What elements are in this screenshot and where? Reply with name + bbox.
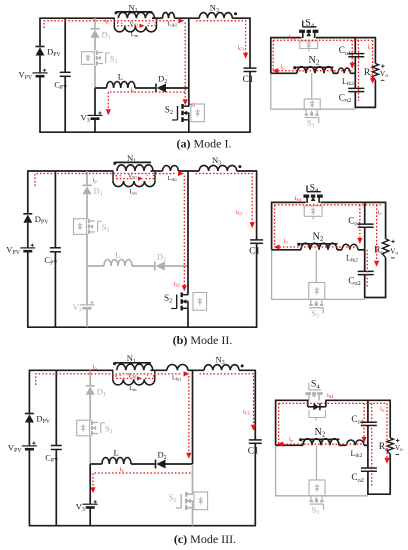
svg-text:(b) Mode II.: (b) Mode II.: [173, 333, 233, 347]
current arrow into C1 panel c: [251, 425, 256, 431]
current arrow at load panel b: [374, 261, 379, 267]
transformer N1 core bar panel a: [116, 11, 153, 13]
winding N3 dot panel b: [238, 165, 241, 168]
winding voltage label VN1 panel a: [120, 21, 150, 28]
current arrow at Co1 panel c: [362, 437, 367, 443]
transformer N1 dot panel c: [113, 362, 116, 365]
magnetizing inductance Lm winding panel c: [113, 370, 155, 392]
svg-text:C1: C1: [249, 247, 260, 257]
body diode box of S1 panel b: [74, 219, 87, 235]
wire: S2 branch panel a: [188, 18, 190, 132]
body diode box of S3 panel b: [309, 283, 325, 300]
current arrow into S2 panel a: [183, 99, 188, 105]
transformer N1 primary winding panel c: [117, 364, 153, 370]
wire: subcircuit bottom rail (inactive) panel a: [270, 108, 355, 110]
wire: subcircuit right edge panel c: [389, 400, 391, 494]
current arrow in Lm panel a: [140, 24, 145, 28]
diode D1 panel b: [83, 185, 103, 197]
current label iS2 panel a: [189, 101, 195, 108]
current label iS4 panel a: [289, 34, 296, 41]
wire: subcircuit top edge panel c: [275, 399, 391, 401]
current path into Co1 branch panel a: [351, 40, 353, 64]
wire: top rail panel c: [29, 369, 256, 371]
capacitor CPV panel a: [54, 72, 70, 91]
caption panel b: [173, 333, 233, 347]
wire: V3 branch panel c: [89, 464, 91, 526]
switch S4 (off) panel c: [305, 379, 323, 401]
wire: top rail panel a: [39, 17, 250, 19]
wire: subcircuit right edge panel a: [374, 38, 376, 108]
current arrow into Llk1 panel a: [178, 18, 184, 23]
capacitor Co1 panel c: [351, 415, 377, 426]
diode D1 panel c: [86, 386, 106, 398]
leakage inductance Llk2 panel a: [338, 68, 354, 87]
source V3 panel c: [76, 500, 98, 513]
diode D2 panel c: [156, 450, 167, 469]
current arrow io left panel c: [277, 442, 283, 447]
wire: subcircuit top edge panel b: [271, 201, 386, 203]
current label io load panel c: [380, 406, 385, 413]
wire: output middle branch panel a: [271, 72, 356, 74]
current arrow in Lm panel c: [137, 376, 142, 380]
output voltage labels panel c: [395, 439, 403, 455]
current arrow into Llk1 panel b: [178, 171, 184, 176]
current label io load panel b: [378, 209, 383, 216]
transformer N1 primary winding panel a: [118, 12, 154, 18]
body diode box of S4 panel a: [300, 41, 318, 52]
body diode box of S3 panel c: [309, 480, 325, 496]
body diode box of S3 panel a: [304, 99, 320, 109]
wire: CPV branch panel b: [54, 171, 56, 327]
wire: top rail panel b: [27, 170, 257, 172]
current arrow in Lm panel b: [138, 176, 143, 180]
diode D2 panel b: [155, 252, 166, 271]
wire: S3 stub panel c: [316, 445, 318, 480]
wire: S3 stub panel a: [311, 73, 313, 99]
caption panel a: [177, 137, 232, 151]
current arrow into C1 panel b: [250, 222, 255, 228]
capacitor Co1 panel b: [348, 217, 374, 228]
body diode box of S2 panel b: [193, 293, 207, 311]
wire: subcircuit bottom edge panel a: [355, 106, 377, 108]
winding voltage label VN1 panel b: [119, 174, 149, 181]
current path iC1 panel c: [200, 374, 254, 426]
current path subcircuit left panel b: [274, 205, 276, 247]
svg-text:VN1: VN1: [128, 174, 137, 180]
current path ip top loop panel b: [35, 174, 175, 187]
wire: subcircuit left edge lower (inactive) panel b: [271, 250, 273, 300]
current path through Co2 panel b: [366, 250, 368, 287]
current path down to D2 panel c: [188, 376, 190, 454]
wire: V3 branch panel a: [94, 88, 96, 132]
wire: bottom rail panel b: [27, 326, 257, 328]
current path subcircuit left panel c: [278, 403, 280, 444]
current arrow io left panel b: [274, 244, 280, 249]
body diode box of S2 panel a: [191, 104, 205, 122]
wire: subcircuit left edge panel b: [271, 202, 273, 249]
wire: output middle branch panel c: [276, 444, 369, 446]
current label io panel a: [281, 64, 286, 71]
current arrow into S2 panel b: [182, 285, 187, 291]
wire: bottom rail panel c: [29, 525, 256, 527]
wire: left rail panel a: [39, 18, 41, 132]
wire: Co1-Co2 column panel a: [354, 38, 356, 108]
wire: D1-S1 branch panel a: [94, 18, 96, 88]
capacitor Co2 panel c: [351, 468, 377, 484]
wire: subcircuit left edge panel c: [275, 400, 277, 445]
source V3 panel b: [73, 301, 95, 314]
wire: L-D2 branch panel b: [87, 265, 189, 267]
current arrow at load panel c: [384, 458, 389, 464]
leakage inductance Llk1 panel b: [163, 165, 179, 182]
winding N2 dot panel c: [299, 438, 302, 441]
wire: subcircuit bottom edge panel c: [367, 493, 391, 495]
diode DPV panel b: [23, 214, 49, 226]
wire: CPV branch panel a: [64, 18, 66, 132]
body diode box of S4 panel b: [304, 206, 322, 220]
transformer N1 dot panel b: [113, 162, 116, 165]
current arrow at Co1 panel b: [357, 238, 362, 244]
diode DPV panel c: [25, 414, 51, 426]
switch S3 (off) panel b: [309, 299, 323, 319]
winding N2 dot panel a: [293, 66, 296, 69]
winding N3 panel c: [204, 355, 239, 371]
svg-text:C1: C1: [243, 75, 254, 85]
wire: output middle branch panel b: [272, 249, 366, 251]
current label iL panel c: [120, 466, 125, 473]
transformer N1 label panel a: [128, 2, 137, 14]
current path ip top loop panel a: [44, 21, 176, 28]
wire: right rail with C1 panel b: [256, 171, 258, 327]
transformer N1 primary winding panel b: [117, 165, 153, 171]
current path iC1 panel b: [196, 174, 253, 224]
transformer N1 core bar panel c: [114, 362, 151, 364]
diode D1 panel a: [91, 29, 111, 41]
current label io panel b: [284, 238, 289, 245]
wire: left rail panel b: [27, 171, 29, 327]
wire: CPV branch panel c: [55, 370, 57, 525]
winding N3 panel a: [199, 2, 232, 18]
wire: D1-S1 branch panel b: [86, 171, 88, 266]
wire: subcircuit bottom edge panel b: [364, 297, 386, 299]
current arrow into V3 panel c: [90, 487, 95, 493]
current arrow at load panel a: [370, 78, 375, 84]
current path iS2 panel b: [183, 176, 185, 287]
current label iC1 panel c: [243, 409, 250, 416]
resistor R panel c: [379, 438, 394, 454]
transformer N1 core bar panel b: [115, 161, 152, 163]
svg-text:L: L: [118, 72, 123, 82]
diode DPV panel a: [36, 47, 62, 59]
resistor R panel a: [364, 64, 379, 81]
wire: V3 branch panel b: [86, 266, 88, 327]
winding N3 dot panel a: [234, 12, 237, 15]
current path through Lm panel b: [116, 175, 153, 179]
svg-text:L: L: [114, 448, 119, 458]
current path load branch panel b: [376, 205, 378, 262]
wire: subcircuit left edge panel a: [270, 38, 272, 74]
switch S1 panel b: [89, 219, 110, 234]
body diode box of S1 panel a: [82, 52, 95, 65]
wire: S2 branch panel b: [187, 171, 189, 327]
capacitor C1 panel b: [249, 240, 263, 257]
current path subcircuit top panel b: [275, 204, 382, 206]
switch S3 (off) panel c: [310, 496, 324, 516]
svg-text:(c) Mode III.: (c) Mode III.: [174, 532, 236, 546]
current arrow into D2 junction panel c: [186, 453, 191, 459]
current arrow into V3 panel a: [106, 109, 111, 115]
current path load branch panel c: [386, 403, 388, 458]
current path into Co1 branch panel c: [363, 403, 365, 438]
magnetizing inductance Lm winding panel b: [113, 171, 155, 196]
source V3 panel a: [81, 111, 103, 124]
leakage inductance Llk1 panel a: [163, 12, 178, 27]
winding N2 dot panel b: [297, 243, 300, 246]
svg-text:C1: C1: [248, 447, 259, 457]
current path through Lm panel c: [116, 375, 154, 378]
output voltage labels panel a: [380, 64, 388, 80]
current path iC1 panel a: [196, 21, 246, 54]
switch S4 panel a: [299, 18, 318, 39]
diode D2 panel a: [156, 74, 167, 93]
inductor L panel b: [104, 250, 132, 267]
wire: Co1-Co2 column panel c: [367, 400, 369, 494]
capacitor Co1 panel a: [339, 46, 365, 57]
output voltage labels panel b: [390, 240, 398, 258]
capacitor Co2 panel a: [339, 88, 365, 104]
magnetizing inductance Lm winding panel a: [114, 18, 156, 38]
transformer N1 label panel c: [127, 353, 136, 365]
winding N2 panel a: [297, 55, 334, 74]
remnant body box of S4 panel c: [309, 410, 325, 421]
current path subcircuit top panel a: [273, 39, 372, 41]
current path iL to V3 panel a: [108, 92, 185, 111]
wire: left rail panel c: [28, 370, 30, 525]
capacitor C1 panel a: [243, 68, 257, 85]
current arrow io left panel a: [272, 68, 278, 73]
winding N2 panel c: [303, 427, 340, 446]
body diode box of S2 panel c: [194, 492, 208, 510]
source VPV panel a: [19, 69, 48, 81]
current path through Lm panel a: [118, 22, 155, 26]
current path io to N2 panel a: [278, 70, 352, 72]
current path io to N2 panel b: [280, 246, 361, 248]
wire: subcircuit right edge panel b: [385, 202, 387, 297]
body diode box of S1 panel c: [77, 420, 90, 436]
wire: subcircuit top edge panel a: [270, 37, 376, 39]
wire: S3 stub panel b: [315, 250, 317, 283]
inductor L panel a: [107, 72, 135, 89]
transformer N1 label panel b: [127, 153, 136, 165]
wire: right rail with C1 panel a: [249, 18, 251, 132]
capacitor Co2 panel b: [348, 271, 374, 287]
current path subcircuit top panel c: [279, 402, 387, 404]
wire: L-D2 branch panel c: [90, 463, 193, 465]
current path io to N2 panel c: [283, 443, 364, 445]
resistor R panel b: [374, 239, 389, 258]
wire: D1-S1 branch panel c: [89, 370, 91, 464]
wire: L-D2 branch panel a: [95, 87, 190, 89]
current path ip top loop panel c: [36, 374, 181, 385]
winding N3 dot panel c: [241, 364, 244, 367]
switch S2 panel c: [169, 492, 194, 510]
winding voltage label VN1 panel c: [119, 373, 149, 380]
current path through capacitors panel a: [358, 40, 360, 101]
switch S1 panel c: [92, 421, 113, 436]
source VPV panel c: [8, 442, 37, 454]
body diode of S4 conducting panel c: [308, 400, 326, 411]
current arrow into C1 panel a: [243, 53, 248, 59]
current label iS4 panel c: [327, 392, 334, 399]
current path iL to V3 panel c: [93, 473, 191, 488]
svg-text:VN1: VN1: [129, 21, 138, 27]
svg-text:VN1: VN1: [128, 374, 137, 380]
current label ip panel c: [93, 364, 98, 371]
current path iS2 panel a: [184, 23, 186, 101]
switch S2 panel b: [164, 293, 189, 311]
caption panel c: [174, 532, 236, 546]
current label ip panel a: [105, 18, 110, 25]
current path load branch panel a: [372, 40, 374, 78]
current arrow at Llk1 panel c: [184, 371, 190, 376]
leakage inductance Llk2 panel c: [347, 440, 365, 459]
wire: S2 branch panel c: [192, 370, 194, 525]
wire: subcircuit left edge lower (inactive) panel c: [275, 445, 277, 496]
current label iS2 panel b: [174, 281, 180, 288]
current label iC1 panel a: [238, 44, 245, 51]
current arrow at Co1 panel a: [350, 63, 355, 69]
wire: subcircuit left edge lower (inactive) panel a: [270, 73, 272, 109]
current label iC1 panel b: [236, 209, 243, 216]
current path through capacitors panel c: [371, 403, 373, 485]
current label ip panel b: [93, 177, 98, 184]
source VPV panel b: [6, 244, 35, 256]
switch S3 (off) panel a: [305, 109, 319, 129]
wire: right rail with C1 panel c: [254, 370, 256, 525]
switch S1 panel a: [97, 51, 118, 66]
wire: subcircuit bottom rail (inactive) panel b: [271, 298, 365, 300]
transformer N1 dot panel a: [115, 11, 118, 14]
current label io panel c: [289, 436, 294, 443]
current label iS4 panel b: [295, 195, 302, 202]
switch S4 panel b: [303, 182, 322, 203]
current label io load panel a: [368, 43, 373, 50]
inductor L panel c: [102, 448, 131, 465]
svg-text:L: L: [115, 250, 120, 260]
leakage inductance Llk2 panel b: [342, 244, 358, 263]
capacitor C1 panel c: [248, 440, 262, 457]
capacitor CPV panel b: [44, 248, 61, 266]
leakage inductance Llk1 panel c: [167, 364, 188, 381]
wire: subcircuit bottom rail (inactive) panel c: [275, 495, 368, 497]
current label iL panel a: [131, 87, 136, 94]
svg-text:(a) Mode I.: (a) Mode I.: [177, 137, 232, 151]
winding N3 panel b: [199, 155, 237, 171]
wire: bottom rail panel a: [39, 131, 250, 133]
current path into Co1 branch panel b: [359, 205, 361, 239]
wire: Co1-Co2 column panel b: [364, 202, 366, 297]
current path subcircuit left panel a: [272, 40, 274, 70]
winding N2 panel b: [301, 231, 338, 250]
capacitor CPV panel c: [45, 446, 62, 465]
switch S2 panel a: [165, 104, 190, 122]
